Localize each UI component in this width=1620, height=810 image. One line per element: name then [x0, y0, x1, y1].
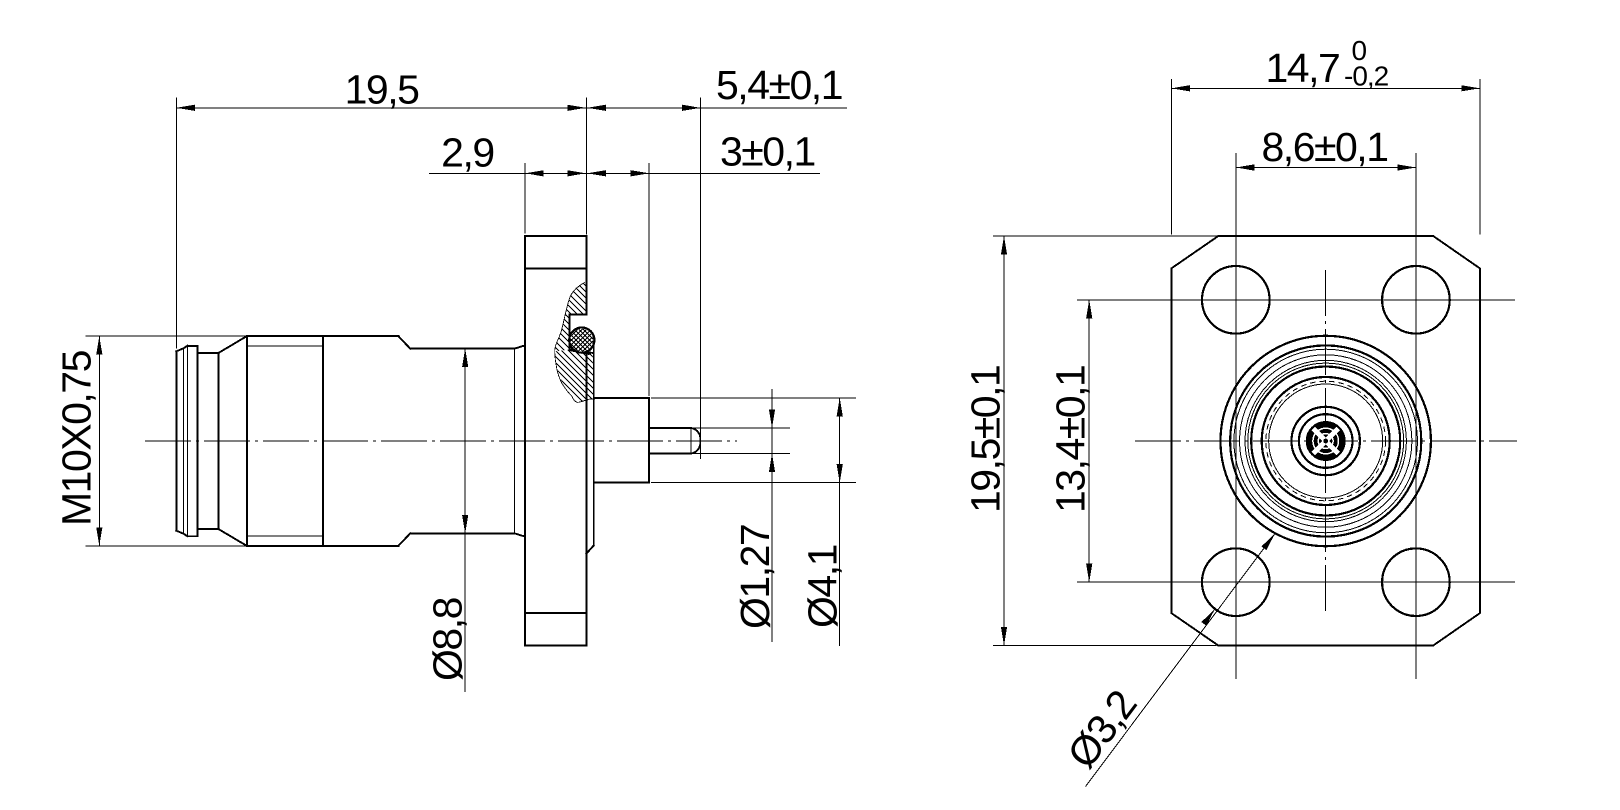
- arrow 14,7 right: [1461, 85, 1480, 91]
- hole column line left: [1235, 153, 1237, 679]
- mounting hole top-right: [1382, 266, 1450, 334]
- front gasket cap left edge: [175, 351, 177, 530]
- mounting hole bottom-right: [1382, 548, 1450, 616]
- arrow 8,6 right: [1397, 164, 1416, 170]
- extension line at pin tip: [700, 98, 702, 460]
- interface outer circle: [1251, 367, 1400, 516]
- arrow M10 top: [96, 336, 102, 355]
- body divider line: [322, 336, 324, 546]
- O-ring inner circle: [1234, 349, 1418, 533]
- M10 extension top: [86, 335, 246, 337]
- boss front face: [593, 343, 595, 546]
- arrow 8,8 top: [462, 349, 468, 368]
- boss bottom chamfer: [586, 546, 593, 554]
- pin ball inner arc 2: [1313, 428, 1339, 454]
- arrow 4,1 bottom: [837, 464, 843, 483]
- svg-text:19,5: 19,5: [345, 66, 419, 112]
- cylinder/flange junction line: [514, 349, 516, 534]
- section hatch upper region: [540, 234, 620, 418]
- connector outer circle: [1221, 336, 1431, 546]
- cone chamfer bottom: [218, 529, 247, 546]
- mounting hole top-left: [1202, 266, 1270, 334]
- flange front face lower: [585, 353, 587, 646]
- dia 8,8 dimension line: [464, 349, 466, 692]
- dimension line 19,5±0,1 vertical: [1003, 236, 1005, 646]
- cap inner line 1: [183, 349, 185, 534]
- cap bottom chamfer facets: [176, 531, 187, 537]
- svg-text:-0,2: -0,2: [1344, 60, 1389, 91]
- svg-text:13,4±0,1: 13,4±0,1: [1048, 366, 1094, 513]
- pin collar circle: [1299, 414, 1353, 468]
- center pin top edge (dia 1,27): [649, 427, 691, 429]
- svg-text:14,7: 14,7: [1266, 45, 1340, 91]
- arrow 19,5 bottom: [1001, 627, 1007, 646]
- O-ring groove lip: [569, 349, 592, 353]
- collar bottom edge: [198, 528, 219, 530]
- flange outline with corner chamfers: [1172, 236, 1480, 646]
- arrow 2,9 right: [567, 170, 586, 176]
- arrow 8,6 left: [1236, 164, 1255, 170]
- dimension line 19,5 / 5,4: [176, 107, 847, 109]
- O-ring (sealing ring cross-section): [569, 328, 594, 353]
- svg-text:Ø8,8: Ø8,8: [425, 597, 471, 681]
- extension line at cap front: [175, 98, 177, 349]
- center pin ball outline: [1307, 422, 1345, 460]
- rear cylinder bottom edge: [410, 532, 514, 534]
- extension 14,7 left: [1171, 79, 1173, 235]
- arrow M10 bottom: [96, 527, 102, 546]
- hole column line right: [1415, 153, 1417, 679]
- svg-text:2,9: 2,9: [441, 130, 494, 176]
- svg-text:3±0,1: 3±0,1: [720, 128, 815, 174]
- mounting hole bottom-left: [1202, 548, 1270, 616]
- dia 1,27 extension top: [692, 427, 790, 429]
- front view vertical centerline: [1325, 270, 1327, 612]
- svg-text:Ø4,1: Ø4,1: [800, 545, 846, 628]
- arrow 2,9 left: [525, 170, 544, 176]
- boss edge circle: [1245, 360, 1406, 521]
- body left junction line: [246, 336, 248, 546]
- bushing bottom edge: [594, 482, 649, 484]
- body bottom edge: [247, 545, 398, 547]
- arrow 3,2 at hole edge: [1201, 609, 1215, 626]
- extension 19,5 top: [993, 235, 1218, 237]
- arrow 13,4 bottom: [1086, 564, 1092, 583]
- svg-text:5,4±0,1: 5,4±0,1: [716, 62, 842, 108]
- dia 1,27 extension bottom: [692, 453, 790, 455]
- dimension line 8,6: [1236, 167, 1416, 169]
- bushing end face: [648, 398, 650, 483]
- M10 extension bottom: [86, 545, 246, 547]
- O-ring groove floor: [568, 315, 570, 350]
- hole row line top: [1077, 299, 1515, 301]
- groove lip wedge: [569, 348, 593, 355]
- local section break line: [555, 282, 596, 402]
- flange top edge: [525, 235, 587, 237]
- hidden thread circle (dashed): [1266, 381, 1386, 501]
- dia 4,1 dimension line: [839, 398, 841, 646]
- cone chamfer top: [218, 336, 247, 353]
- thread minor diameter line top: [248, 345, 323, 347]
- dia 3,2 leader line: [1086, 534, 1276, 787]
- arrow 13,4 top: [1086, 300, 1092, 319]
- arrow 14,7 left: [1172, 85, 1191, 91]
- center pin bottom edge: [649, 453, 691, 455]
- collar top edge: [198, 352, 219, 354]
- pin ball inner arc 1: [1318, 434, 1333, 449]
- pin chamfer line: [690, 428, 692, 454]
- svg-text:M10X0,75: M10X0,75: [54, 350, 100, 526]
- insulator bore circle: [1292, 407, 1360, 475]
- dimension line 2,9 / 3: [429, 172, 820, 174]
- cap inner line 2: [186, 346, 188, 536]
- dia 4,1 extension top: [651, 397, 856, 399]
- cap top chamfer facets: [176, 346, 187, 352]
- arrow 3 right: [631, 170, 650, 176]
- extension line at flange front face: [585, 98, 587, 235]
- pin ball white cross band 2: [1310, 425, 1342, 457]
- arrow 19,5 right: [567, 105, 586, 111]
- extension line at flange rear face: [524, 163, 526, 234]
- O-ring crosshatch: [560, 301, 606, 397]
- arrow 3 left: [587, 170, 606, 176]
- M10 dimension line: [98, 336, 100, 546]
- collar/cone junction line: [217, 353, 219, 529]
- flange front face upper: [585, 236, 587, 315]
- body top edge (M10 thread OD): [247, 335, 398, 337]
- arrow 1,27 bottom (outside): [769, 454, 775, 473]
- dia 1,27 dimension line: [771, 389, 773, 642]
- dimension line 14,7: [1172, 87, 1480, 89]
- front view horizontal centerline: [1135, 440, 1517, 442]
- flange rear face: [524, 236, 526, 646]
- O-ring groove top wall: [569, 314, 586, 316]
- extension 14,7 right: [1479, 79, 1481, 235]
- section hatch lower region: [540, 292, 620, 470]
- boss face circle: [1248, 363, 1404, 519]
- extension line at bushing face: [648, 163, 650, 396]
- junction fillet top: [515, 345, 525, 348]
- pin ball white cross band 1: [1310, 425, 1342, 457]
- arrow 4,1 top: [837, 398, 843, 417]
- arrow 19,5 top: [1001, 236, 1007, 255]
- arrow 5,4 left: [587, 105, 606, 111]
- dimension line 13,4±0,1 vertical: [1088, 300, 1090, 582]
- extension 19,5 bottom: [993, 645, 1217, 647]
- center pin ball disc: [1308, 423, 1344, 459]
- centerline (side view axis): [145, 440, 737, 442]
- cap right edge: [197, 346, 199, 536]
- cap top edge: [187, 345, 197, 347]
- svg-text:19,5±0,1: 19,5±0,1: [963, 366, 1009, 513]
- arrow 1,27 top (outside): [769, 409, 775, 428]
- body right chamfer top: [398, 336, 410, 349]
- insulator bushing top edge (dia 4,1): [594, 397, 649, 399]
- insulator circle: [1269, 384, 1383, 498]
- pin tip profile: [691, 428, 700, 454]
- interface bore circle: [1262, 377, 1390, 505]
- body right chamfer bottom: [398, 533, 410, 546]
- pin ball center dot: [1323, 439, 1328, 444]
- dia 4,1 extension bottom: [651, 482, 856, 484]
- svg-text:Ø1,27: Ø1,27: [732, 525, 778, 629]
- O-ring outer circle: [1230, 345, 1421, 536]
- flange bottom edge: [525, 645, 587, 647]
- rear cylinder top edge (dia 8,8): [410, 348, 514, 350]
- cap bottom edge: [187, 535, 197, 537]
- hole row line bottom: [1077, 581, 1515, 583]
- thread minor diameter line bottom: [248, 535, 323, 537]
- flange corner chamfer line bottom: [525, 612, 587, 614]
- arrow 5,4 right: [682, 105, 701, 111]
- arrow 19,5 left: [176, 105, 195, 111]
- junction fillet bottom: [515, 533, 525, 536]
- arrow 8,8 bottom: [462, 515, 468, 534]
- arrow 3,2 at outer circle: [1261, 534, 1275, 551]
- svg-text:8,6±0,1: 8,6±0,1: [1262, 124, 1388, 170]
- groove edge circle: [1240, 355, 1412, 527]
- flange corner chamfer line top: [525, 267, 587, 269]
